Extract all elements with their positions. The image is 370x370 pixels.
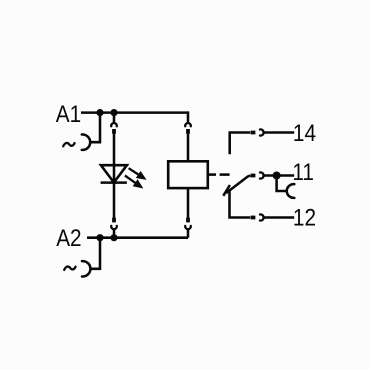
plug-in connection pin (top of LED branch) [112,129,116,134]
mechanical link dashed line coil to contact [208,173,216,176]
svg-text:12: 12 [293,204,316,231]
plug-in connection pin (contact 14) [251,131,256,135]
svg-text:A2: A2 [56,225,81,252]
cage clamp terminal 11 [287,184,295,198]
junction dot node 11 [273,172,281,180]
plug-in connection pin (contact 12) [251,216,256,220]
wire A1 bus [81,111,188,114]
LED D1 triangle [101,165,127,182]
LED emission arrow 2 [125,176,143,189]
junction dot on A2 bus right [110,234,117,241]
plug-in connection pin (top of coil branch) [186,129,190,134]
wire NC fixed contact 12 branch [230,190,251,218]
wire A2 bus [87,236,188,239]
cage clamp terminal A2 [82,261,90,276]
wire stub coil socket to A2 bus [187,230,190,238]
plug-in connection socket (contact 12) [260,214,264,220]
AC source symbol ~ at A1 [63,143,74,146]
svg-text:14: 14 [293,120,316,147]
plug-in connection socket (contact 11) [260,172,264,178]
plug-in connection socket (bottom of coil branch) [185,226,191,229]
wire to coil top [187,134,190,162]
wire A2 drop to clamp [90,239,100,269]
switch armature (common contact) [226,176,250,194]
plug-in connection pin (bottom of coil branch) [186,218,190,223]
AC source symbol ~ at A2 [64,267,75,270]
wire to terminal 12 [264,216,295,219]
plug-in connection socket (contact 14) [260,129,264,135]
plug-in connection pin (bottom of LED branch) [112,218,116,223]
wire LED anode [113,134,116,218]
plug-in connection socket (top of coil branch) [185,123,191,126]
plug-in connection socket (top of LED branch) [111,123,117,126]
cage clamp terminal A1 [82,135,90,150]
wire to terminal 14 [264,131,295,134]
wire 11 branch to clamp [277,177,288,191]
wire stub from A1 bus down to plug socket [113,113,116,124]
wire A1 drop to clamp [90,114,100,142]
relay coil K1 [168,161,208,188]
svg-text:A1: A1 [56,101,81,128]
LED emission arrow 1 [129,168,147,180]
NC contact tick [223,185,230,196]
wire stub socket to A2 bus [113,230,116,238]
junction dot on A2 bus left [96,234,103,241]
junction dot on A1 bus right [110,109,117,116]
plug-in connection pin (contact 11) [251,174,256,178]
wire NO fixed contact 14 branch [230,133,251,155]
plug-in connection socket (bottom of LED branch) [111,226,117,229]
wire to terminal 11 [264,174,295,177]
LED D1 cathode bar [101,181,127,184]
wire coil branch from A1 bus corner down [187,113,188,124]
junction dot on A1 bus left [96,109,103,116]
svg-text:11: 11 [292,159,314,186]
wire coil bottom down [187,188,190,218]
